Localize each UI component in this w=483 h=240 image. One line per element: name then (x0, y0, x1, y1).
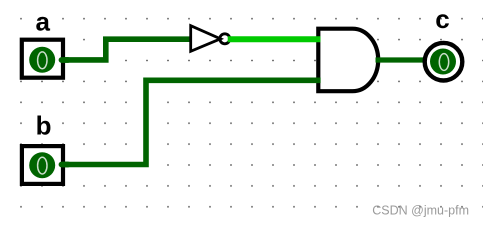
svg-text:b: b (36, 111, 52, 141)
wire net NOT output (logic high, bright green) to AND gate upper input (228, 36, 321, 42)
svg-text:c: c (435, 4, 449, 34)
output pin c (circle) (425, 43, 463, 81)
input pin b (square) (22, 146, 68, 184)
wire net a: pin a to NOT gate input (58, 39, 191, 60)
input pin a (square) (22, 40, 68, 78)
label a (35, 6, 50, 36)
watermark CSDN @jmu-pfm (372, 204, 469, 218)
wire net b: pin b to AND gate lower input (58, 80, 321, 164)
svg-text:CSDN @jmu-pfm: CSDN @jmu-pfm (372, 204, 469, 218)
label b (36, 111, 52, 141)
svg-text:a: a (35, 6, 50, 36)
NOT gate U1 inversion bubble (220, 34, 230, 44)
label c (435, 4, 449, 34)
NOT gate U1 (triangle) (191, 26, 221, 52)
wire net AND output to pin c (376, 57, 425, 62)
AND gate U2 (318, 29, 378, 91)
